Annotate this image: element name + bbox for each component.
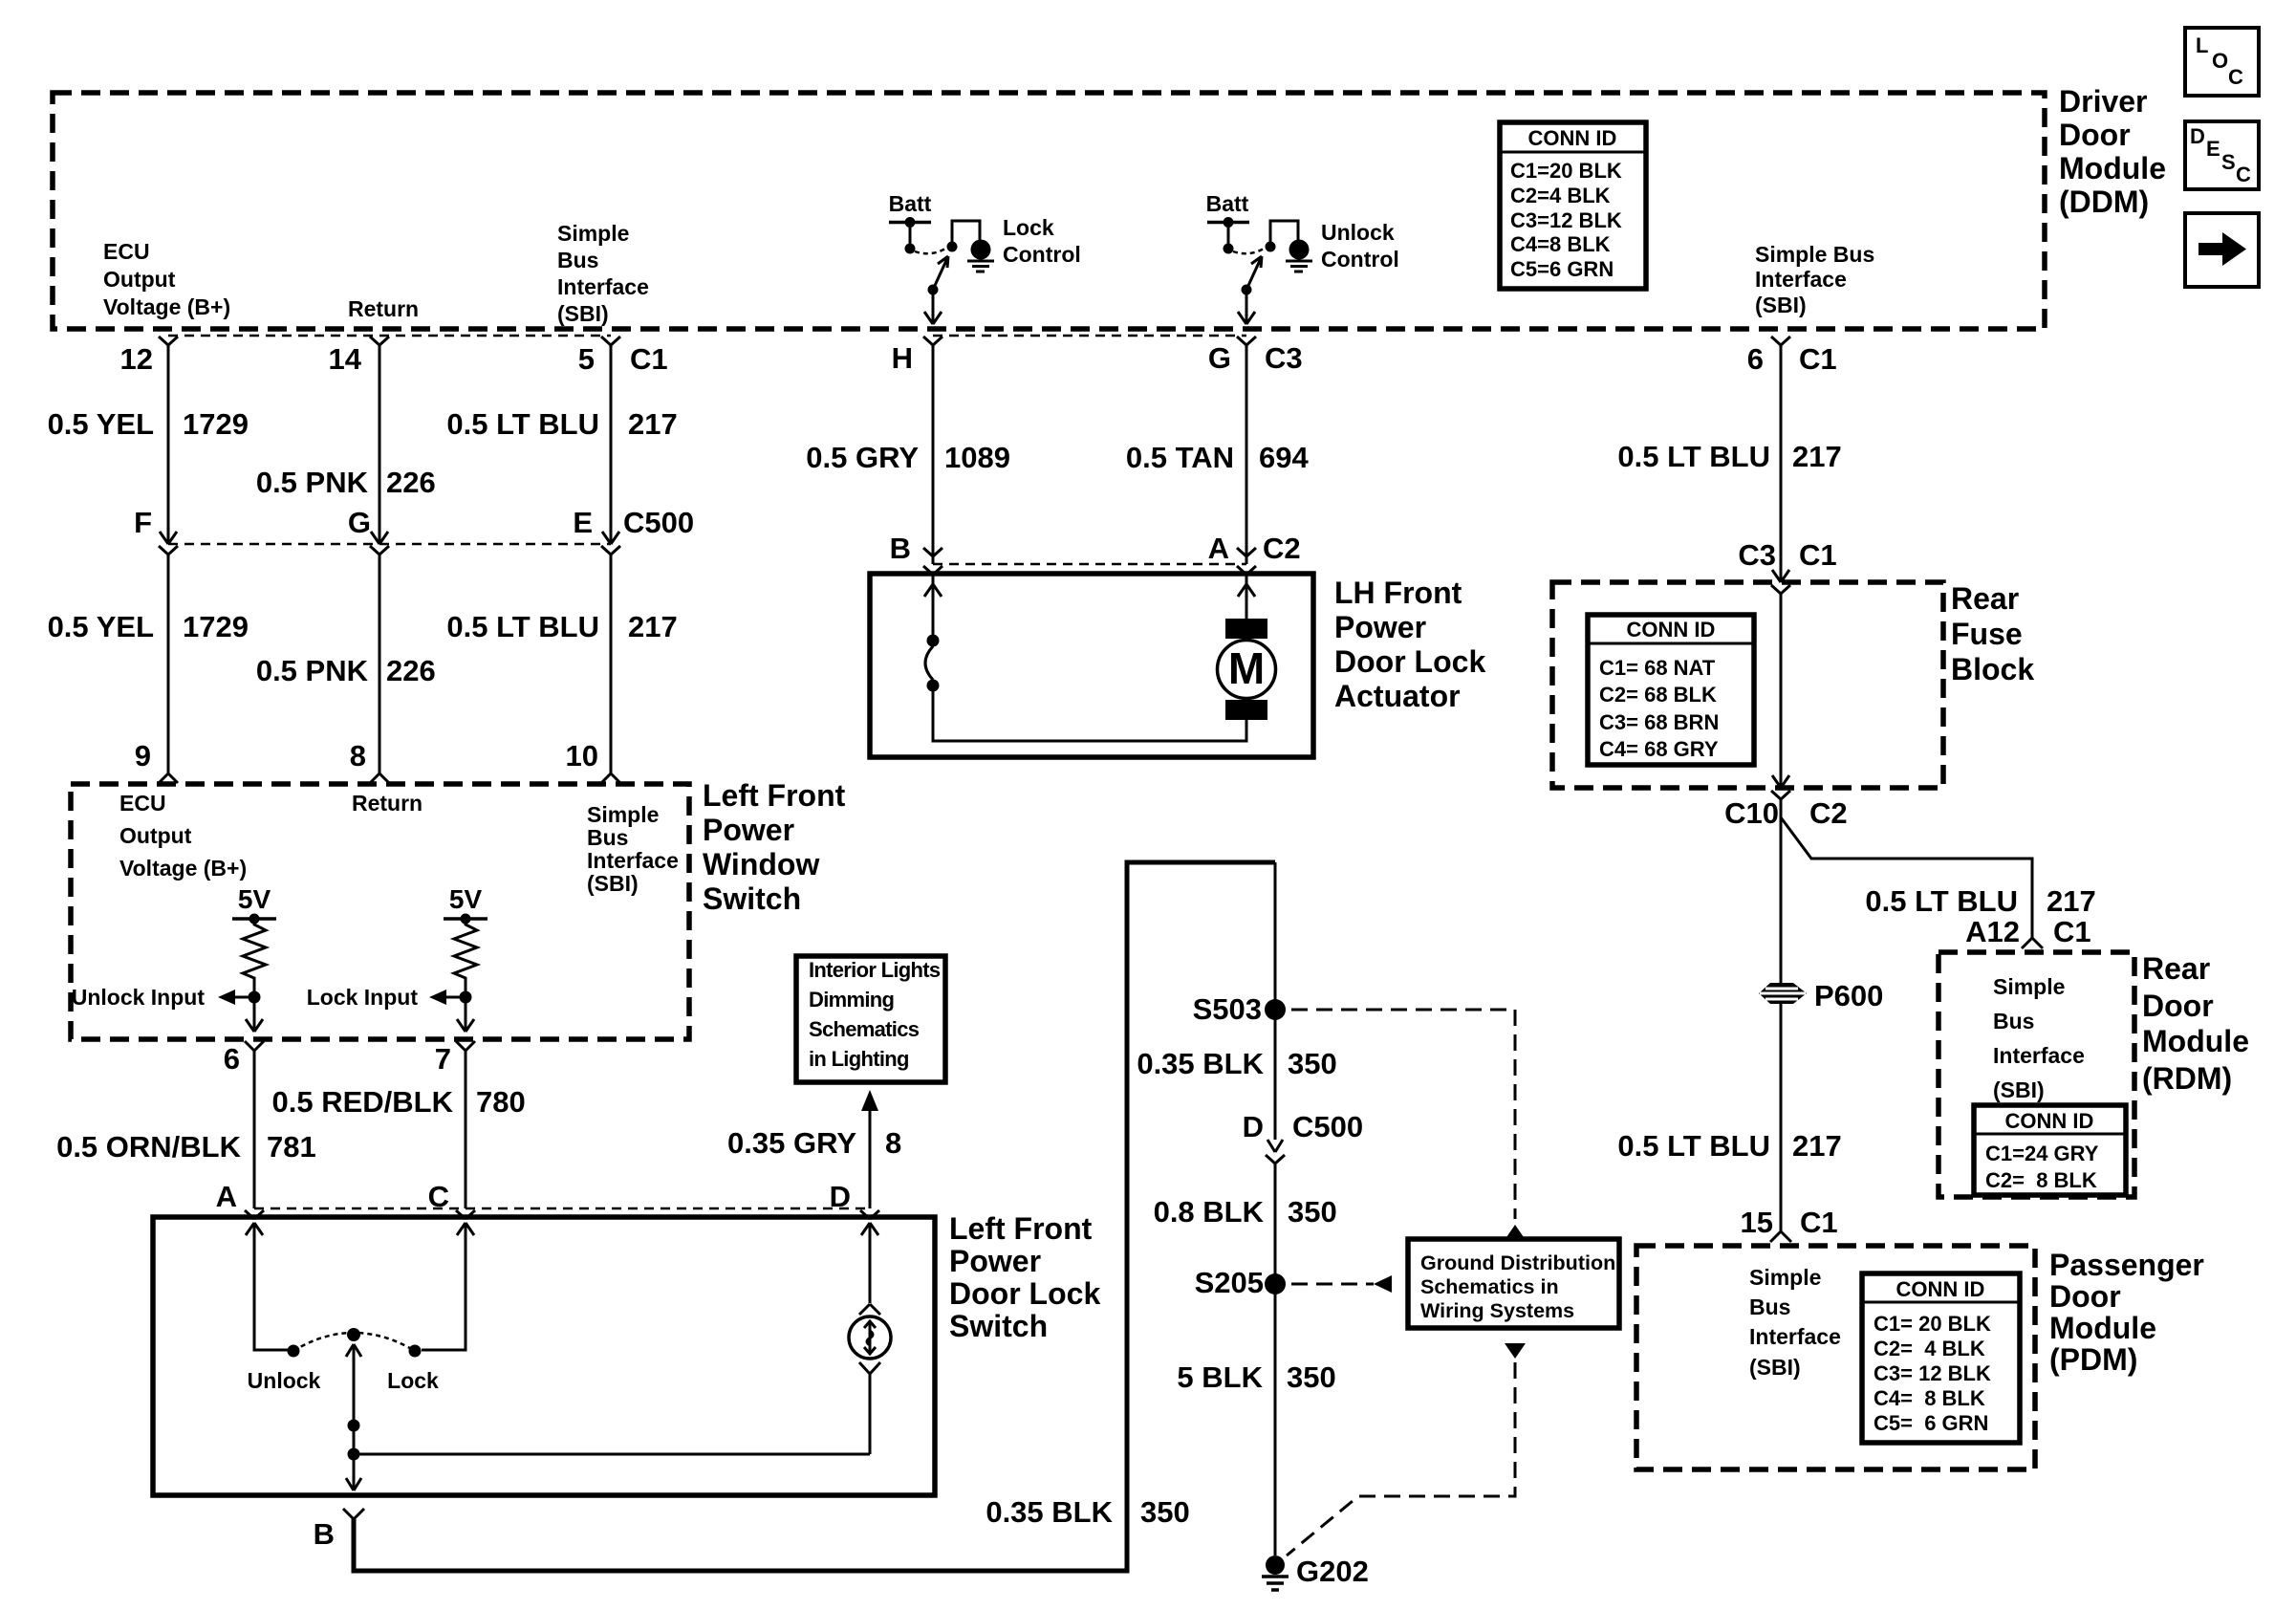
svg-text:C1: C1 — [1799, 538, 1837, 572]
svg-text:Interface: Interface — [1749, 1324, 1841, 1349]
svg-text:C1= 20 BLK: C1= 20 BLK — [1874, 1312, 1991, 1336]
svg-text:14: 14 — [329, 342, 362, 376]
svg-text:E: E — [573, 506, 593, 539]
svg-text:(SBI): (SBI) — [1993, 1077, 2045, 1102]
svg-text:Schematics in: Schematics in — [1420, 1275, 1559, 1298]
svg-text:(SBI): (SBI) — [587, 871, 639, 896]
svg-text:0.5 PNK: 0.5 PNK — [256, 466, 369, 499]
svg-text:CONN ID: CONN ID — [1896, 1277, 1985, 1301]
svg-text:C2= 68 BLK: C2= 68 BLK — [1599, 683, 1717, 707]
svg-text:5 BLK: 5 BLK — [1177, 1360, 1263, 1394]
svg-text:Power: Power — [1334, 610, 1426, 644]
svg-text:C3: C3 — [1265, 341, 1303, 375]
svg-text:0.5 LT BLU: 0.5 LT BLU — [1617, 1129, 1770, 1163]
svg-text:C2= 8 BLK: C2= 8 BLK — [1985, 1168, 2097, 1192]
svg-text:D: D — [1243, 1110, 1264, 1143]
svg-text:G202: G202 — [1296, 1555, 1369, 1588]
svg-text:Door Lock: Door Lock — [949, 1276, 1100, 1311]
svg-text:Module: Module — [2142, 1024, 2249, 1058]
svg-text:0.5 YEL: 0.5 YEL — [48, 407, 154, 441]
svg-text:C2: C2 — [1263, 532, 1301, 565]
svg-text:B: B — [314, 1517, 335, 1551]
svg-text:0.5 GRY: 0.5 GRY — [806, 441, 919, 474]
svg-text:S: S — [2221, 150, 2236, 174]
svg-text:C: C — [428, 1180, 449, 1213]
svg-text:Output: Output — [103, 267, 176, 292]
svg-text:C2=4 BLK: C2=4 BLK — [1510, 184, 1611, 207]
svg-text:Control: Control — [1003, 242, 1081, 267]
svg-text:Ground Distribution: Ground Distribution — [1420, 1251, 1615, 1274]
svg-text:Module: Module — [2059, 151, 2166, 185]
svg-text:Bus: Bus — [587, 825, 628, 850]
svg-text:(SBI): (SBI) — [1755, 293, 1807, 317]
svg-text:5: 5 — [578, 342, 595, 376]
svg-text:Switch: Switch — [949, 1309, 1048, 1343]
svg-text:Batt: Batt — [889, 191, 932, 216]
svg-text:0.35 BLK: 0.35 BLK — [1137, 1047, 1264, 1080]
svg-text:C5=6 GRN: C5=6 GRN — [1510, 257, 1614, 281]
svg-text:Power: Power — [703, 813, 794, 847]
svg-text:B: B — [890, 532, 911, 565]
svg-text:H: H — [892, 341, 913, 375]
svg-text:(DDM): (DDM) — [2059, 185, 2149, 219]
svg-text:Block: Block — [1951, 652, 2034, 686]
svg-text:Module: Module — [2049, 1311, 2156, 1345]
svg-text:(SBI): (SBI) — [557, 301, 609, 326]
svg-text:Lock: Lock — [1003, 215, 1054, 240]
svg-text:217: 217 — [1792, 440, 1842, 473]
svg-text:Driver: Driver — [2059, 84, 2148, 119]
svg-text:S503: S503 — [1193, 992, 1262, 1026]
svg-text:O: O — [2212, 49, 2228, 73]
svg-text:226: 226 — [386, 466, 436, 499]
svg-text:C4=8 BLK: C4=8 BLK — [1510, 232, 1611, 256]
svg-text:350: 350 — [1288, 1047, 1337, 1080]
svg-text:Rear: Rear — [2142, 951, 2210, 986]
svg-text:Unlock: Unlock — [1321, 220, 1395, 245]
svg-text:C10: C10 — [1724, 796, 1779, 830]
svg-text:Simple: Simple — [557, 221, 629, 246]
svg-text:Simple: Simple — [1993, 974, 2065, 999]
svg-text:Output: Output — [119, 823, 192, 848]
svg-text:226: 226 — [386, 654, 436, 687]
svg-text:Left Front: Left Front — [703, 778, 846, 813]
svg-text:C1: C1 — [1799, 342, 1837, 376]
svg-text:E: E — [2206, 137, 2220, 161]
svg-text:C3=12 BLK: C3=12 BLK — [1510, 208, 1622, 232]
svg-text:C: C — [2228, 65, 2243, 89]
svg-text:Interface: Interface — [557, 274, 649, 299]
svg-text:C2= 4 BLK: C2= 4 BLK — [1874, 1337, 1985, 1360]
svg-text:C1= 68 NAT: C1= 68 NAT — [1599, 656, 1716, 680]
svg-text:G: G — [348, 506, 371, 539]
svg-text:CONN ID: CONN ID — [1627, 618, 1716, 642]
svg-text:Batt: Batt — [1206, 191, 1249, 216]
svg-text:A: A — [216, 1180, 237, 1213]
svg-text:0.35 BLK: 0.35 BLK — [986, 1495, 1113, 1529]
svg-text:Lock: Lock — [387, 1368, 439, 1393]
svg-text:C1: C1 — [1800, 1206, 1838, 1239]
svg-text:Simple Bus: Simple Bus — [1755, 242, 1874, 267]
svg-text:C1: C1 — [2053, 915, 2091, 948]
svg-text:Interface: Interface — [587, 848, 679, 873]
svg-text:Actuator: Actuator — [1334, 679, 1461, 713]
svg-text:Interface: Interface — [1993, 1043, 2085, 1068]
svg-text:P600: P600 — [1814, 979, 1883, 1012]
svg-text:Switch: Switch — [703, 881, 801, 916]
svg-text:Bus: Bus — [1993, 1009, 2034, 1033]
svg-text:350: 350 — [1140, 1495, 1190, 1529]
svg-text:0.5 TAN: 0.5 TAN — [1126, 441, 1234, 474]
svg-text:C500: C500 — [623, 506, 694, 539]
svg-text:C500: C500 — [1292, 1110, 1363, 1143]
svg-text:0.8 BLK: 0.8 BLK — [1154, 1195, 1265, 1229]
svg-text:C3: C3 — [1738, 538, 1776, 572]
svg-text:0.5 LT BLU: 0.5 LT BLU — [446, 610, 599, 643]
svg-text:Power: Power — [949, 1244, 1041, 1278]
svg-text:C2: C2 — [1809, 796, 1848, 830]
svg-text:Interface: Interface — [1755, 267, 1847, 292]
svg-text:Simple: Simple — [1749, 1265, 1821, 1290]
svg-text:0.5 LT BLU: 0.5 LT BLU — [1865, 884, 2018, 918]
svg-text:Door: Door — [2059, 118, 2131, 152]
svg-text:6: 6 — [1747, 342, 1764, 376]
svg-text:350: 350 — [1288, 1195, 1337, 1229]
svg-text:Return: Return — [348, 296, 419, 321]
svg-text:A12: A12 — [1965, 915, 2020, 948]
svg-text:Wiring Systems: Wiring Systems — [1420, 1299, 1574, 1322]
svg-text:10: 10 — [566, 739, 598, 772]
svg-text:C3= 68 BRN: C3= 68 BRN — [1599, 710, 1719, 734]
svg-text:780: 780 — [476, 1085, 526, 1119]
svg-text:Bus: Bus — [557, 248, 598, 272]
svg-text:Rear: Rear — [1951, 581, 2019, 616]
svg-text:5V: 5V — [449, 884, 483, 914]
svg-text:0.5 PNK: 0.5 PNK — [256, 654, 369, 687]
svg-text:9: 9 — [135, 739, 151, 772]
svg-text:350: 350 — [1287, 1360, 1336, 1394]
svg-text:Schematics: Schematics — [809, 1017, 920, 1041]
svg-text:6: 6 — [224, 1042, 240, 1076]
svg-text:ECU: ECU — [119, 791, 166, 816]
svg-text:(SBI): (SBI) — [1749, 1355, 1801, 1380]
svg-text:D: D — [830, 1180, 851, 1213]
svg-text:217: 217 — [628, 407, 678, 441]
svg-text:Door: Door — [2142, 989, 2214, 1023]
svg-text:1089: 1089 — [944, 441, 1010, 474]
svg-text:0.35 GRY: 0.35 GRY — [727, 1126, 856, 1160]
svg-text:CONN ID: CONN ID — [2005, 1109, 2094, 1133]
svg-text:ECU: ECU — [103, 239, 150, 264]
svg-text:217: 217 — [2047, 884, 2096, 918]
svg-text:12: 12 — [120, 342, 153, 376]
svg-text:0.5 LT BLU: 0.5 LT BLU — [1617, 440, 1770, 473]
svg-text:Passenger: Passenger — [2049, 1248, 2204, 1282]
svg-text:C4= 68 GRY: C4= 68 GRY — [1599, 737, 1719, 761]
svg-text:S205: S205 — [1195, 1266, 1264, 1299]
svg-text:0.5 LT BLU: 0.5 LT BLU — [446, 407, 599, 441]
svg-text:Unlock Input: Unlock Input — [72, 985, 206, 1010]
svg-text:1729: 1729 — [183, 610, 249, 643]
svg-text:15: 15 — [1741, 1206, 1773, 1239]
svg-text:C1=24 GRY: C1=24 GRY — [1985, 1142, 2099, 1165]
svg-text:Voltage (B+): Voltage (B+) — [119, 856, 247, 881]
svg-text:Interior Lights: Interior Lights — [809, 958, 941, 982]
svg-text:Simple: Simple — [587, 802, 659, 827]
svg-text:217: 217 — [1792, 1129, 1842, 1163]
svg-text:(RDM): (RDM) — [2142, 1061, 2232, 1096]
svg-text:Door: Door — [2049, 1279, 2121, 1314]
svg-text:Return: Return — [352, 791, 422, 816]
svg-text:D: D — [2190, 124, 2205, 148]
svg-text:0.5 ORN/BLK: 0.5 ORN/BLK — [56, 1130, 242, 1164]
svg-text:Control: Control — [1321, 247, 1399, 272]
svg-text:A: A — [1208, 532, 1229, 565]
svg-text:C1=20 BLK: C1=20 BLK — [1510, 159, 1622, 183]
svg-text:C1: C1 — [630, 342, 668, 376]
svg-text:C5= 6 GRN: C5= 6 GRN — [1874, 1411, 1988, 1435]
svg-text:LH Front: LH Front — [1334, 576, 1462, 610]
svg-text:Door Lock: Door Lock — [1334, 644, 1485, 679]
svg-text:M: M — [1228, 643, 1265, 693]
svg-text:(PDM): (PDM) — [2049, 1342, 2137, 1377]
svg-text:CONN ID: CONN ID — [1528, 126, 1617, 150]
svg-text:694: 694 — [1259, 441, 1309, 474]
svg-text:8: 8 — [885, 1126, 901, 1160]
svg-text:7: 7 — [435, 1042, 451, 1076]
svg-text:1729: 1729 — [183, 407, 249, 441]
svg-text:Unlock: Unlock — [248, 1368, 321, 1393]
svg-text:F: F — [134, 506, 152, 539]
svg-text:Bus: Bus — [1749, 1295, 1790, 1319]
svg-text:217: 217 — [628, 610, 678, 643]
svg-text:5V: 5V — [238, 884, 271, 914]
svg-text:L: L — [2196, 33, 2208, 57]
svg-text:Dimming: Dimming — [809, 988, 894, 1012]
svg-text:0.5 YEL: 0.5 YEL — [48, 610, 154, 643]
svg-text:C: C — [2236, 163, 2251, 186]
svg-text:Left Front: Left Front — [949, 1211, 1093, 1246]
svg-text:C4= 8 BLK: C4= 8 BLK — [1874, 1386, 1985, 1410]
svg-text:8: 8 — [350, 739, 366, 772]
svg-text:in Lighting: in Lighting — [809, 1047, 909, 1071]
svg-text:G: G — [1208, 341, 1231, 375]
svg-text:Fuse: Fuse — [1951, 617, 2023, 651]
svg-text:Window: Window — [703, 847, 819, 881]
svg-text:0.5 RED/BLK: 0.5 RED/BLK — [272, 1085, 454, 1119]
svg-text:Voltage (B+): Voltage (B+) — [103, 294, 230, 319]
svg-text:781: 781 — [267, 1130, 316, 1164]
svg-text:C3= 12 BLK: C3= 12 BLK — [1874, 1361, 1991, 1385]
svg-text:Lock Input: Lock Input — [307, 985, 419, 1010]
